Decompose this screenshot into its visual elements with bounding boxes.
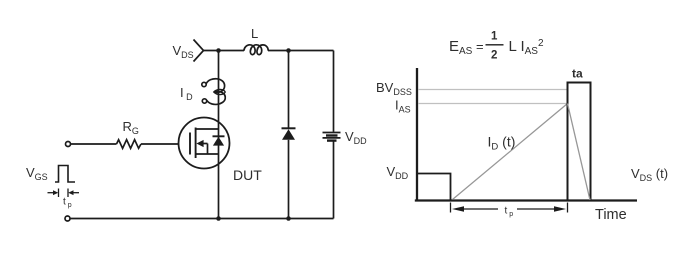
label BVDSS [376,80,412,97]
wire VDD branch upper [333,51,335,132]
label ta [572,67,583,81]
node at diode bottom junction [286,216,291,221]
dimension tp pulse width [48,189,80,198]
VDD step waveform [418,174,451,201]
svg-text:2: 2 [491,50,497,62]
svg-text:DUT: DUT [233,167,262,183]
svg-text:IAS: IAS [395,98,411,115]
svg-text:VDS (t): VDS (t) [631,166,668,183]
formula EAS = 1/2 L IAS^2 [449,31,544,62]
node at diode top junction [286,48,291,53]
svg-text:VGS: VGS [26,165,48,182]
wire resistor to gate [141,143,179,145]
wire drain-source vertical through DUT [218,51,220,219]
gridline IAS level [418,103,568,105]
wire diode branch upper [288,51,290,129]
diode D1 freewheel [282,128,296,140]
svg-text:ta: ta [572,67,583,81]
svg-text:L: L [251,26,258,41]
svg-text:VDS: VDS [173,43,194,60]
wire bottom rail [70,218,334,220]
label ID(t) [488,134,516,153]
gridline BVDSS level [418,89,568,91]
svg-text:ID (t): ID (t) [488,134,516,153]
label L [251,26,258,41]
resistor RG [117,140,142,149]
avalanche pulse VDS [568,83,591,201]
transistor body arrow [196,140,207,154]
svg-text:t p: t p [505,206,514,219]
wire gate input to resistor [71,143,117,145]
graph x-axis [415,199,637,201]
svg-text:EAS =: EAS = [449,38,484,57]
label DUT [233,167,262,183]
label VDS [173,43,194,60]
node at source bottom junction [216,216,221,221]
graph y-axis [416,68,418,202]
terminal gate input [66,142,71,147]
transistor drain lead [196,128,219,130]
label VDD battery [345,129,367,146]
svg-text:VDD: VDD [345,129,367,146]
transistor body diode [213,136,225,145]
node at drain top junction [216,48,221,53]
battery VDD [323,133,341,141]
probe arrow VDS [194,40,204,62]
label tp pulse [63,197,72,210]
svg-text:Time: Time [595,207,627,223]
terminal source return [65,216,70,221]
label RG [123,119,139,136]
label tp graph [505,206,514,219]
label VDS(t) [631,166,668,183]
pulse symbol VGS [55,166,75,183]
current probe ID [202,79,225,105]
svg-text:RG: RG [123,119,139,136]
inductor L [244,45,268,55]
transistor source lead [196,153,219,155]
svg-text:VDD: VDD [387,164,409,181]
label IAS [395,98,411,115]
label VDD level [387,164,409,181]
transistor channel bar [195,128,197,159]
wire diode branch lower [288,140,290,219]
svg-text:t p: t p [63,197,72,210]
transistor DUT body circle [179,118,230,169]
transistor gate bar [189,133,191,155]
fraction bar [486,44,504,46]
svg-text:BVDSS: BVDSS [376,80,412,97]
label ID [180,85,193,102]
wire top rail from VDS probe to VDD branch [204,50,334,52]
current decay diagonal [568,104,591,201]
label Time [595,207,627,223]
wire VDD branch lower [333,142,335,219]
svg-text:1: 1 [491,31,498,43]
label VGS [26,165,48,182]
dimension tp graph [451,203,568,213]
svg-text:L IAS2: L IAS2 [509,38,544,57]
svg-text:I D: I D [180,85,193,102]
current ramp ID(t) [453,104,568,200]
